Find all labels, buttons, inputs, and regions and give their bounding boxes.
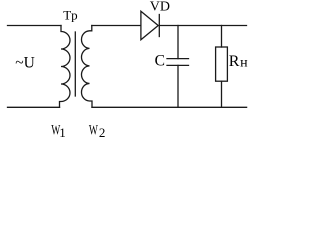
svg-text:Tp: Tp [63, 7, 77, 22]
wire secondary top to diode anode [92, 25, 141, 27]
svg-text:R: R [229, 53, 240, 70]
wire AC input bottom [8, 106, 60, 108]
wire capacitor bottom lead [177, 65, 179, 107]
resistor Rn body [216, 47, 228, 81]
svg-text:C: C [155, 53, 165, 70]
svg-text:VD: VD [150, 0, 170, 15]
transformer Tp secondary winding W2 [81, 26, 92, 108]
wire AC input top [8, 25, 62, 27]
wire resistor bottom lead [221, 81, 223, 107]
svg-text:~U: ~U [15, 54, 35, 71]
svg-text:W: W [89, 122, 98, 139]
wire resistor top lead [221, 26, 223, 48]
wire capacitor top lead [177, 26, 179, 59]
wire bottom rail [92, 106, 247, 108]
svg-text:2: 2 [99, 125, 106, 140]
svg-text:1: 1 [59, 125, 65, 140]
capacitor C top plate [167, 58, 189, 60]
transformer core [74, 32, 76, 96]
transformer Tp primary winding W1 [60, 26, 71, 108]
diode VD triangle [141, 11, 158, 40]
diode VD cathode bar [158, 15, 160, 37]
capacitor C bottom plate [167, 64, 189, 66]
wire diode cathode to top right [160, 25, 247, 27]
svg-text:н: н [240, 56, 248, 71]
